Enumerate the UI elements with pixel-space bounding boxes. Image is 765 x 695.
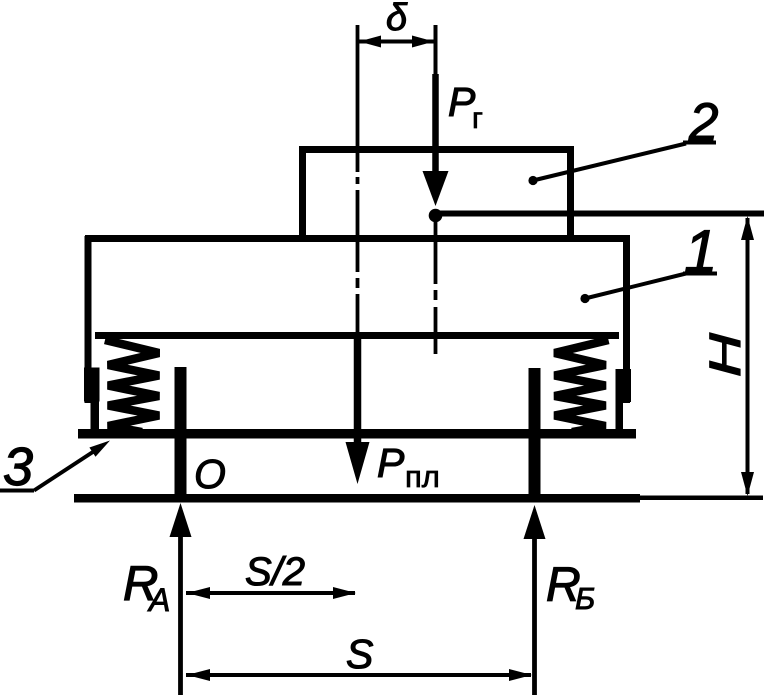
body 1 left lip: [84, 368, 100, 402]
body 1 right wall: [623, 236, 630, 403]
reaction R_A arrow: [178, 528, 183, 695]
svg-text:2: 2: [688, 93, 718, 152]
leader for label 3: [0, 489, 34, 493]
wire: extension line for delta (right, x=435.5): [434, 25, 438, 80]
svg-text:Б: Б: [575, 581, 595, 616]
svg-text:O: O: [194, 451, 226, 497]
body 1 right lip: [616, 369, 632, 402]
leader for label 1: [580, 294, 589, 303]
support B post: [529, 368, 541, 502]
wire: dash-dot axis below application point (x=435): [434, 222, 438, 354]
support A post: [175, 367, 187, 502]
svg-text:S/2: S/2: [245, 550, 305, 594]
dimension H: [746, 218, 750, 494]
svg-text:г: г: [472, 102, 483, 135]
svg-text:δ: δ: [386, 0, 408, 39]
svg-text:пл: пл: [405, 459, 440, 494]
ground line: [74, 494, 640, 503]
dimension S: [186, 673, 531, 677]
svg-text:1: 1: [684, 218, 717, 285]
leader for label 2: [528, 176, 537, 185]
spring right: [555, 340, 609, 432]
svg-text:S: S: [346, 631, 373, 677]
body 1 bottom floor line: [95, 332, 619, 339]
svg-text:H: H: [701, 332, 750, 377]
svg-text:P: P: [377, 440, 405, 486]
dimension S/2: [186, 591, 355, 595]
svg-text:А: А: [147, 582, 170, 618]
node axis: vertical center line of housing (dash-dot): [356, 25, 360, 341]
arrow Pпл head: [346, 442, 370, 484]
body 1 left wall: [85, 236, 92, 403]
wire: force line Pг shaft: [432, 74, 439, 176]
reaction R_B arrow: [532, 530, 537, 695]
base plate: [78, 429, 636, 439]
svg-text:3: 3: [3, 437, 33, 497]
spring 3 left: [105, 340, 159, 432]
node application point (dot): [429, 209, 443, 223]
body 1 top edge: [85, 235, 630, 242]
arrow Pг head: [423, 171, 449, 206]
wire: force line Pпл shaft: [354, 337, 362, 446]
block 2 (upper body): [303, 150, 571, 242]
dimension delta: [359, 40, 434, 44]
wire: horizontal line from dot to H dimension: [433, 211, 764, 217]
